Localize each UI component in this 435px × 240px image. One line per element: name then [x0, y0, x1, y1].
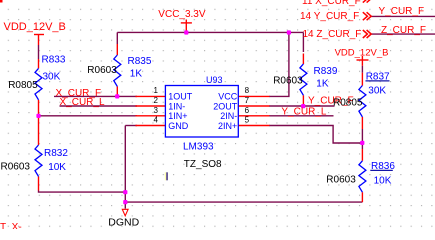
svg-text:14 Z_CUR_F: 14 Z_CUR_F — [303, 29, 362, 40]
svg-text:2OUT: 2OUT — [213, 101, 238, 111]
svg-text:R0805: R0805 — [8, 80, 38, 91]
svg-text:VDD_12V_B: VDD_12V_B — [4, 21, 66, 33]
svg-text:14 Y_CUR_F: 14 Y_CUR_F — [300, 11, 359, 22]
svg-text:1: 1 — [154, 86, 159, 95]
svg-text:1OUT: 1OUT — [168, 92, 193, 102]
svg-text:10K: 10K — [48, 162, 66, 173]
svg-text:7: 7 — [245, 96, 250, 105]
svg-text:LM393: LM393 — [183, 142, 214, 153]
svg-text:R833: R833 — [42, 54, 66, 65]
svg-text:GND: GND — [168, 121, 189, 131]
svg-text:R835: R835 — [128, 56, 152, 67]
svg-text:2IN-: 2IN- — [220, 111, 237, 121]
svg-text:VDD_12V_B: VDD_12V_B — [335, 47, 389, 58]
svg-text:Y_CUR_L: Y_CUR_L — [281, 107, 326, 118]
svg-text:1K: 1K — [316, 79, 329, 90]
svg-text:DGND: DGND — [108, 217, 139, 229]
svg-text:2: 2 — [154, 96, 159, 105]
svg-text:R0603: R0603 — [326, 174, 356, 185]
svg-text:5: 5 — [245, 115, 250, 124]
svg-text:1IN+: 1IN+ — [168, 111, 187, 121]
svg-text:10K: 10K — [374, 175, 392, 186]
svg-text:R839: R839 — [314, 66, 338, 77]
svg-text:R0603: R0603 — [1, 161, 31, 172]
svg-text:8: 8 — [245, 86, 250, 95]
svg-text:X_CUR_L: X_CUR_L — [60, 97, 105, 108]
svg-text:R0603: R0603 — [273, 76, 303, 87]
svg-text:3: 3 — [154, 106, 159, 115]
svg-text:R0805: R0805 — [333, 98, 363, 109]
svg-text:11 X_CUR_F: 11 X_CUR_F — [302, 0, 361, 7]
svg-text:30K: 30K — [43, 72, 61, 83]
svg-text:VCC_3.3V: VCC_3.3V — [158, 9, 206, 20]
svg-text:30K: 30K — [368, 86, 386, 97]
svg-text:U93: U93 — [206, 75, 223, 85]
svg-text:1K: 1K — [130, 69, 143, 80]
svg-text:6: 6 — [245, 106, 250, 115]
svg-text:Z_CUR_F: Z_CUR_F — [381, 25, 426, 36]
svg-text:TZ_SO8: TZ_SO8 — [184, 159, 222, 170]
svg-text:1IN-: 1IN- — [168, 101, 185, 111]
svg-text:R0603: R0603 — [87, 65, 117, 76]
svg-text:R832: R832 — [44, 148, 68, 159]
svg-text:VCC: VCC — [218, 92, 238, 102]
svg-text:T_X-: T_X- — [0, 222, 22, 229]
svg-text:2IN+: 2IN+ — [218, 121, 237, 131]
svg-text:4: 4 — [154, 115, 159, 124]
svg-text:Y_CUR_F: Y_CUR_F — [379, 6, 425, 17]
